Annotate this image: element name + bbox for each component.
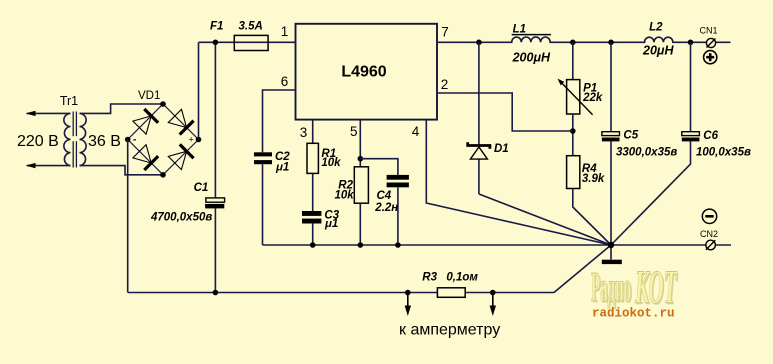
svg-text:36 В: 36 В [88, 133, 121, 150]
svg-text:μ1: μ1 [275, 162, 289, 174]
svg-text:VD1: VD1 [138, 90, 160, 102]
svg-text:220 В: 220 В [17, 133, 59, 150]
svg-text:22k: 22k [582, 92, 603, 104]
svg-text:Радио: Радио [591, 264, 631, 311]
svg-text:3.5A: 3.5A [239, 21, 263, 33]
svg-text:Tr1: Tr1 [60, 94, 78, 108]
svg-text:R3: R3 [422, 272, 437, 284]
svg-text:7: 7 [441, 24, 449, 39]
svg-text:-: - [133, 135, 136, 146]
svg-text:C4: C4 [377, 190, 392, 202]
svg-text:4: 4 [412, 124, 420, 139]
svg-text:10k: 10k [335, 190, 355, 202]
svg-text:μ1: μ1 [324, 218, 338, 230]
svg-text:3300,0x35в: 3300,0x35в [616, 147, 677, 159]
svg-text:CN1: CN1 [699, 26, 717, 36]
svg-text:C6: C6 [703, 130, 718, 142]
svg-text:20μH: 20μH [642, 44, 674, 58]
svg-text:L4960: L4960 [341, 64, 386, 81]
svg-text:3: 3 [300, 125, 308, 140]
svg-text:2: 2 [441, 77, 449, 92]
svg-text:D1: D1 [494, 143, 509, 155]
svg-text:10k: 10k [321, 157, 341, 169]
svg-text:100,0x35в: 100,0x35в [696, 147, 751, 159]
svg-text:CN2: CN2 [700, 229, 718, 239]
svg-text:C1: C1 [194, 182, 209, 194]
svg-text:5: 5 [350, 124, 358, 139]
svg-text:+: + [189, 135, 194, 145]
svg-text:1: 1 [281, 24, 289, 39]
svg-text:radiokot.ru: radiokot.ru [592, 307, 675, 321]
svg-text:F1: F1 [210, 21, 223, 33]
svg-text:3.9k: 3.9k [582, 173, 605, 185]
svg-text:4700,0x50в: 4700,0x50в [150, 212, 212, 224]
svg-text:L1: L1 [513, 24, 526, 36]
svg-text:0,1ом: 0,1ом [446, 272, 478, 284]
svg-text:к амперметру: к амперметру [399, 322, 500, 339]
svg-text:L2: L2 [649, 21, 663, 33]
svg-text:6: 6 [281, 74, 289, 89]
svg-text:C5: C5 [623, 130, 638, 142]
svg-text:200μH: 200μH [512, 51, 551, 65]
svg-text:2.2н: 2.2н [374, 202, 398, 214]
